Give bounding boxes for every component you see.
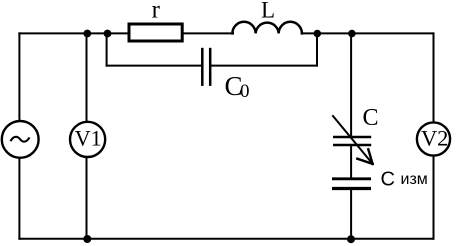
svg-text:r: r (152, 0, 161, 23)
inductor L (232, 0, 302, 33)
wire: top bus between r and L (184, 32, 234, 34)
wire: C branch top (top node to variable capacitor) (350, 33, 352, 135)
variable capacitor C (333, 105, 379, 164)
wire: V1 branch lower (86, 158, 88, 239)
wire: C0 branch left drop (106, 33, 108, 65)
svg-text:С: С (381, 169, 395, 191)
wire: right vertical upper (top node to V2) (433, 33, 435, 122)
voltmeter V2 (417, 122, 450, 155)
wire: C0 branch right riser (316, 33, 318, 65)
junction node: top bus / V1 branch (83, 30, 91, 38)
wire: left vertical lower (source to bottom node) (18, 159, 20, 239)
wire: top bus right segment (302, 32, 434, 34)
junction node: top bus / C0 branch (104, 30, 112, 38)
wire: C branch middle (C to C_izm) (350, 146, 352, 177)
svg-text:L: L (261, 0, 275, 23)
wire: bottom bus (19, 238, 433, 240)
resistor r (129, 0, 182, 41)
AC source generator (2, 121, 39, 158)
capacitor C_izm (332, 169, 428, 191)
wire: V1 branch upper (86, 33, 88, 121)
svg-text:C: C (363, 105, 379, 131)
wire: C branch bottom (C_izm to bottom node) (350, 190, 352, 239)
junction node: bottom bus / C branch (347, 235, 355, 243)
svg-text:V2: V2 (421, 126, 449, 151)
junction node: top bus / C0 right riser (314, 30, 322, 38)
wire: right vertical lower (V2 to bottom node) (433, 157, 435, 239)
wire: C0 branch right horizontal (211, 65, 317, 67)
junction node: top bus / C branch (348, 30, 356, 38)
svg-text:изм: изм (401, 171, 428, 188)
svg-text:V1: V1 (75, 125, 102, 150)
voltmeter V1 (70, 122, 105, 157)
wire: C0 branch left horizontal (107, 65, 202, 67)
capacitor C0 (202, 48, 249, 102)
junction node: bottom bus / V1 branch (83, 235, 91, 243)
wire: top bus left segment (19, 32, 127, 34)
svg-text:0: 0 (240, 81, 250, 102)
wire: left vertical upper (top node to source) (18, 33, 20, 121)
